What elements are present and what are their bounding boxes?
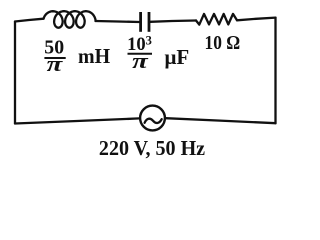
wire: capacitor to resistor xyxy=(150,21,196,22)
wire: bottom-right segment xyxy=(166,118,276,123)
capacitor C1 right plate xyxy=(148,12,151,32)
wire: inductor to capacitor xyxy=(96,21,140,22)
wire: resistor to top-right corner xyxy=(237,18,276,21)
svg-text:μF: μF xyxy=(165,45,190,69)
svg-text:mH: mH xyxy=(78,46,110,69)
capacitor C1 left plate xyxy=(139,12,142,32)
wire: top-left segment xyxy=(15,19,44,22)
wire: left vertical xyxy=(14,22,16,124)
svg-text:π: π xyxy=(47,51,64,76)
label C1 fraction bar xyxy=(128,53,153,55)
wire: bottom-left segment xyxy=(15,118,139,123)
AC sine tilde inside source xyxy=(145,119,162,123)
svg-text:π: π xyxy=(132,48,149,73)
label L1 fraction bar xyxy=(44,57,65,59)
AC source V1 circle xyxy=(140,106,165,131)
resistor R1 zigzag xyxy=(196,14,237,25)
wire: right vertical xyxy=(274,18,276,124)
svg-text:10 Ω: 10 Ω xyxy=(205,32,241,54)
inductor L1 coil xyxy=(44,11,96,28)
svg-text:220 V, 50 Hz: 220 V, 50 Hz xyxy=(99,138,205,161)
